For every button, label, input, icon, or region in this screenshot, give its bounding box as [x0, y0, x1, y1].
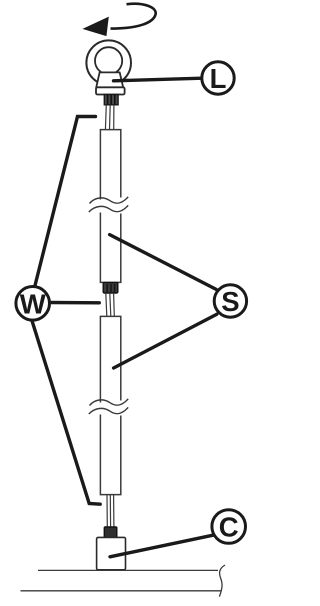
- connector block C: [97, 537, 126, 569]
- leader W top: [35, 117, 96, 288]
- leader S upper: [110, 235, 217, 290]
- leader to L: [114, 78, 203, 81]
- svg-text:S: S: [221, 286, 239, 317]
- wire strands middle (between sleeves): [106, 293, 115, 316]
- ground line 1 (upper surface line): [38, 569, 218, 571]
- eye bolt collar: [96, 87, 125, 94]
- wire strands top (below eye bolt): [105, 105, 114, 130]
- wire strands bottom (below sleeve S2): [107, 495, 114, 527]
- eye bolt body (boss): [96, 72, 123, 87]
- leader W bottom: [32, 321, 100, 504]
- svg-text:C: C: [219, 512, 239, 543]
- label L: [202, 62, 234, 94]
- ferrule F1 (crimp between sleeves): [103, 283, 118, 293]
- ferrule F2 (crimp above connector): [104, 527, 117, 538]
- sleeve S1 (upper tube): [100, 130, 120, 283]
- leader S lower: [114, 314, 217, 368]
- leader W middle: [50, 301, 100, 305]
- break mark sleeve S1: [89, 197, 128, 212]
- rotation arrow: [84, 4, 156, 36]
- eye bolt ring: [86, 40, 131, 85]
- sleeve S2 (lower tube): [100, 316, 120, 494]
- eye bolt threaded shank: [104, 95, 118, 105]
- label C: [212, 510, 246, 544]
- svg-text:W: W: [20, 288, 46, 319]
- leader to C: [110, 535, 213, 557]
- label W: [16, 287, 50, 321]
- ground line 2 (lower surface line): [21, 590, 222, 592]
- break mark sleeve S2: [89, 399, 128, 414]
- ground break squiggle: [219, 565, 225, 597]
- label S: [214, 285, 246, 317]
- svg-text:L: L: [210, 63, 227, 94]
